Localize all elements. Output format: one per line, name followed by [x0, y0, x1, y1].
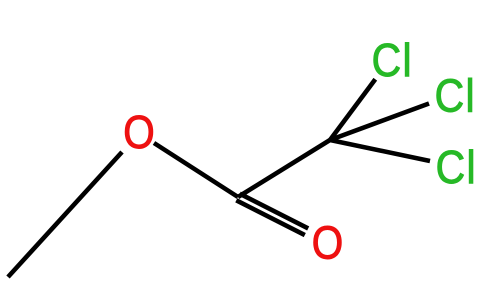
- Cl 3 atom label: [436, 142, 477, 194]
- carbonyl O atom label: [312, 218, 343, 269]
- Cl 2 atom label: [435, 70, 476, 122]
- svg-text:O: O: [123, 108, 154, 159]
- wire: single bond CCl3 C to Cl 3: [330, 140, 430, 161]
- Cl 1 atom label: [372, 34, 413, 86]
- wire: single bond carbonyl C to CCl3 C: [238, 140, 330, 197]
- wire: single bond CCl3 C to Cl 2: [330, 104, 429, 141]
- wire: C=O double bond lower line: [236, 200, 304, 235]
- ether O atom label: [123, 108, 154, 159]
- svg-text:Cl: Cl: [372, 34, 413, 86]
- wire: single bond CCl3 C to Cl 1: [330, 79, 375, 140]
- wire: single bond CH3 to ether O: [8, 152, 122, 277]
- wire: C=O double bond upper line: [240, 194, 309, 229]
- svg-text:Cl: Cl: [435, 70, 476, 122]
- wire: single bond ether O to carbonyl C: [154, 143, 238, 197]
- svg-text:Cl: Cl: [436, 142, 477, 194]
- svg-text:O: O: [312, 218, 343, 269]
